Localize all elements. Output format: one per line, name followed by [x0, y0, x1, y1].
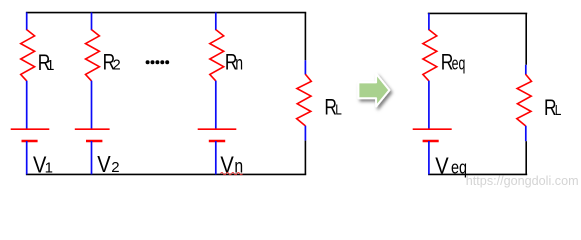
resistor RL (left circuit): [297, 74, 312, 126]
svg-text:1: 1: [46, 58, 54, 74]
svg-text:L: L: [335, 103, 342, 119]
wire: Req branch middle segment: [428, 81, 430, 130]
svg-text:https://gongdoli.com: https://gongdoli.com: [466, 173, 579, 188]
wire: Req branch top stub: [428, 13, 430, 30]
wire: branch 1 top stub: [26, 12, 28, 30]
wire: right circuit right column upper (black): [525, 13, 527, 64]
wire: left circuit right column lower (black): [304, 141, 306, 175]
wire: right circuit right column lower (black): [525, 141, 527, 174]
wire: left circuit right column upper (black): [304, 13, 306, 61]
resistor R1: [21, 30, 35, 81]
battery V2 negative plate: [86, 140, 102, 142]
label Vn: [220, 152, 243, 178]
wire: branch 2 bottom segment: [91, 141, 93, 174]
svg-text:V: V: [220, 152, 234, 178]
wire: branch n middle segment: [215, 81, 217, 130]
wire: branch 1 bottom segment: [26, 141, 28, 174]
battery V1 negative plate: [22, 140, 38, 142]
battery Veq negative plate: [423, 140, 439, 142]
spellcheck squiggle under Vn: [221, 172, 243, 174]
svg-text:L: L: [555, 103, 562, 119]
svg-text:2: 2: [113, 58, 121, 74]
wire: left RL top lead (blue): [304, 60, 306, 74]
node: ellipsis dots between R2 and Rn: [146, 60, 170, 64]
label V1: [33, 151, 53, 177]
battery Vn negative plate: [209, 140, 225, 142]
block arrow (equivalent transform): [358, 74, 389, 107]
svg-text:1: 1: [45, 159, 53, 176]
label R2: [103, 50, 121, 75]
wire: right circuit bottom rail: [428, 173, 527, 175]
battery V1 positive plate: [11, 128, 50, 130]
label RL (right): [544, 95, 561, 120]
wire: branch n top stub: [215, 12, 217, 30]
wire: branch n bottom segment: [215, 141, 217, 174]
battery Veq positive plate: [413, 128, 452, 130]
svg-text:n: n: [235, 54, 243, 75]
battery Vn positive plate: [198, 128, 237, 130]
label V2: [97, 151, 119, 177]
resistor Rn: [210, 30, 224, 81]
wire: left circuit top rail: [26, 12, 306, 14]
wire: branch 1 middle segment: [26, 81, 28, 130]
resistor R2: [86, 30, 100, 81]
svg-text:V: V: [97, 151, 111, 177]
wire: left RL bottom lead (blue): [304, 126, 306, 141]
wire: branch 2 middle segment: [91, 81, 93, 130]
svg-text:V: V: [435, 152, 449, 178]
resistor Req: [423, 30, 437, 81]
wire: right circuit top rail: [428, 12, 527, 14]
wire: right RL top lead (blue): [525, 65, 527, 75]
label RL (left): [324, 95, 341, 120]
svg-text:eq: eq: [452, 54, 466, 74]
svg-text:eq: eq: [451, 157, 467, 177]
resistor RL (right circuit): [517, 74, 532, 126]
wire: right RL bottom lead (blue): [525, 126, 527, 142]
battery V2 positive plate: [75, 128, 110, 130]
label Req: [441, 50, 466, 75]
label Rn: [225, 50, 243, 75]
svg-text:2: 2: [111, 159, 119, 176]
wire: Veq bottom segment: [428, 141, 430, 174]
label R1: [38, 50, 55, 75]
label Veq: [435, 152, 467, 178]
wire: left circuit bottom rail: [26, 173, 306, 175]
wire: branch 2 top stub: [91, 12, 93, 30]
